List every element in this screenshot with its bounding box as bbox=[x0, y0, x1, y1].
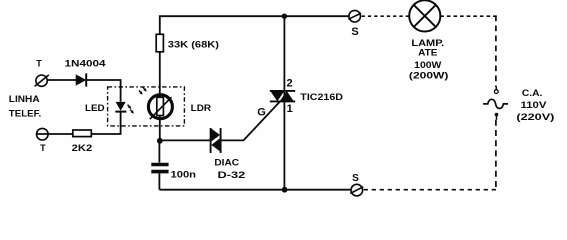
label LINHA TELEF. bbox=[9, 94, 41, 118]
LED LED1 bbox=[115, 102, 134, 114]
wire dashed corner down to AC top bbox=[495, 16, 497, 88]
svg-text:G: G bbox=[257, 107, 266, 119]
junction J3 bbox=[282, 187, 288, 193]
svg-text:LINHA: LINHA bbox=[9, 94, 40, 104]
svg-text:ATE: ATE bbox=[418, 47, 437, 58]
terminal T2 (bottom telephone line) bbox=[37, 128, 49, 140]
terminal S2 (bottom) bbox=[350, 184, 363, 196]
LED light arrows bbox=[128, 105, 134, 114]
svg-text:S: S bbox=[352, 173, 359, 184]
svg-text:S: S bbox=[351, 26, 358, 38]
wire dashed lamp to corner bbox=[440, 15, 497, 17]
wire junction to DIAC bbox=[160, 139, 211, 141]
svg-text:DIAC: DIAC bbox=[214, 158, 239, 168]
wire dashed AC bottom down to corner bbox=[495, 120, 497, 191]
svg-text:1: 1 bbox=[287, 103, 293, 115]
lamp LP1 bbox=[409, 0, 440, 31]
wire 33K branch vertical bbox=[159, 16, 161, 141]
svg-text:33K (68K): 33K (68K) bbox=[168, 39, 219, 50]
capacitor C1 100n bbox=[151, 141, 168, 190]
wire DIAC to triac gate bbox=[221, 101, 281, 140]
AC source C.A. bbox=[483, 87, 508, 120]
label C.A. 110V (220V) bbox=[516, 88, 554, 123]
wire top bus bbox=[159, 15, 349, 17]
svg-text:2K2: 2K2 bbox=[72, 143, 93, 154]
optocoupler dashed box bbox=[108, 87, 185, 126]
resistor R1 2K2 bbox=[73, 130, 92, 137]
wire dashed S1 to lamp bbox=[362, 15, 409, 17]
wire dashed corner to S2 bbox=[363, 189, 496, 191]
wire triac branch vertical bbox=[283, 16, 285, 190]
svg-text:110V: 110V bbox=[521, 100, 548, 111]
svg-text:TELEF.: TELEF. bbox=[9, 108, 41, 118]
terminal S1 (top) bbox=[348, 10, 361, 22]
LDR light arrows bbox=[139, 87, 147, 94]
junction J2 bbox=[157, 138, 163, 144]
junction J1 bbox=[282, 14, 287, 19]
label LAMP. ATE 100W (200W) bbox=[409, 38, 449, 81]
svg-text:2: 2 bbox=[287, 78, 293, 90]
triac Q1 TIC216D bbox=[270, 91, 295, 102]
terminal T1 (top telephone line) bbox=[35, 75, 49, 87]
svg-text:1N4004: 1N4004 bbox=[65, 59, 106, 69]
svg-text:LDR: LDR bbox=[191, 103, 212, 113]
svg-text:T: T bbox=[40, 143, 46, 153]
svg-text:TIC216D: TIC216D bbox=[300, 92, 343, 103]
diode D1 1N4004 bbox=[76, 73, 87, 86]
svg-text:(220V): (220V) bbox=[516, 112, 554, 123]
svg-text:(200W): (200W) bbox=[409, 71, 449, 82]
svg-text:D-32: D-32 bbox=[218, 170, 246, 181]
svg-text:C.A.: C.A. bbox=[522, 88, 543, 99]
LDR LDR1 bbox=[139, 87, 172, 119]
svg-text:T: T bbox=[36, 59, 42, 69]
svg-text:LED: LED bbox=[85, 103, 105, 113]
wire T1 to diode bbox=[47, 79, 76, 81]
wire diode to LED corner bbox=[86, 80, 120, 102]
diac D2 bbox=[211, 128, 221, 153]
resistor R2 33K(68K) bbox=[156, 34, 163, 52]
svg-text:100W: 100W bbox=[414, 60, 441, 71]
svg-text:100n: 100n bbox=[171, 169, 197, 180]
wire bottom bus bbox=[159, 189, 351, 191]
wire 2K2 to T2 (passes through terminal circle) bbox=[36, 133, 73, 135]
wire LED to 2K2 corner bbox=[92, 112, 121, 134]
